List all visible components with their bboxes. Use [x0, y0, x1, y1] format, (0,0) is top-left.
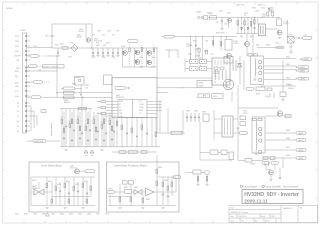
aux zeners — [241, 28, 250, 31]
svg-text:C818: C818 — [102, 57, 106, 59]
svg-text:LAMP2: LAMP2 — [300, 66, 306, 69]
svg-text:R840: R840 — [256, 94, 260, 96]
verticals x240 x244 — [240, 56, 244, 90]
rail x157 — [156, 47, 158, 78]
svg-text:LAMP7: LAMP7 — [298, 139, 304, 142]
FET Q806 — [147, 51, 152, 56]
svg-text:D802: D802 — [70, 43, 74, 45]
svg-text:R848: R848 — [286, 155, 290, 157]
wire lamp error — [27, 140, 60, 142]
net oval dot — [62, 88, 63, 89]
svg-text:1000pF: 1000pF — [288, 88, 294, 90]
svg-text:LAMP1: LAMP1 — [304, 58, 310, 61]
svg-text:2009.11.11: 2009.11.11 — [239, 216, 247, 218]
power box inner parts — [214, 67, 224, 73]
wire onoff stub — [27, 55, 57, 57]
junction dot y87.8 — [182, 87, 183, 88]
svg-text:L801: L801 — [96, 45, 100, 47]
transistor Q831 — [277, 111, 282, 116]
power stage box — [212, 58, 230, 85]
svg-text:R862: R862 — [158, 167, 162, 169]
FET labels — [121, 46, 155, 69]
wire y108.5 — [60, 108, 92, 110]
wire y87.8 right of U801 — [157, 87, 197, 89]
PC803 label — [233, 41, 239, 45]
arrow wire from oval — [126, 87, 130, 88]
small cap C801 — [41, 110, 46, 113]
svg-text:CN804: CN804 — [250, 163, 255, 165]
cn803 ground — [290, 43, 292, 46]
svg-text:R852: R852 — [48, 181, 52, 183]
svg-text:Q821: Q821 — [255, 11, 259, 13]
svg-text:C810: C810 — [219, 11, 223, 13]
svg-text:Q820: Q820 — [78, 214, 82, 216]
AC riser vertical x52 — [51, 24, 53, 48]
labels right of opto — [85, 85, 89, 90]
labels drive boxes — [190, 57, 202, 67]
svg-text:R833 R834: R833 R834 — [216, 33, 225, 35]
top link wire y24 — [52, 23, 86, 25]
svg-text:104: 104 — [102, 35, 105, 37]
net oval inside U801 — [115, 87, 126, 90]
net oval mid — [63, 87, 75, 90]
drive cluster small boxes — [198, 48, 208, 54]
svg-text:C817: C817 — [92, 57, 96, 59]
Error Detect Block box — [29, 162, 99, 212]
T803 marks — [225, 118, 231, 135]
q811 tail — [228, 23, 230, 29]
cap top labels row2 — [92, 31, 120, 37]
label C816 — [78, 29, 85, 33]
diode bridge D802 — [71, 45, 78, 52]
connector CN801 — [23, 33, 27, 133]
T801 primary winding — [255, 59, 256, 77]
svg-text:Q811: Q811 — [227, 13, 231, 15]
wire y133 — [157, 118, 185, 134]
svg-text:R854: R854 — [84, 181, 88, 183]
svg-text:Q810: Q810 — [42, 214, 46, 216]
outside grounds — [196, 184, 208, 187]
filter caps row — [92, 48, 119, 56]
svg-text:VREF: VREF — [139, 110, 144, 112]
svg-text:F801: F801 — [55, 44, 59, 46]
label D801 — [76, 35, 82, 39]
svg-text:Sheet: Sheet — [265, 219, 270, 222]
svg-text:SAMSUNG: SAMSUNG — [283, 207, 292, 210]
edb transistor top — [75, 169, 80, 174]
svg-text:470: 470 — [92, 35, 95, 37]
wire y152 blocks top — [112, 151, 157, 153]
svg-text:HV32HD_9DY - Inverter: HV32HD_9DY - Inverter — [244, 192, 299, 198]
svg-text:R853: R853 — [66, 181, 70, 183]
legend circle 1 — [240, 185, 242, 187]
mid caps y113 — [187, 113, 199, 122]
parts x240 — [240, 116, 246, 125]
cn802 wire — [208, 17, 240, 19]
edb out wire — [77, 168, 85, 171]
note box BRT — [43, 65, 65, 68]
svg-text:Size: Size — [231, 220, 234, 222]
title table — [229, 206, 318, 223]
mid caps plates — [186, 116, 200, 119]
right sub transistor — [269, 170, 274, 175]
table extra text — [261, 206, 302, 218]
U801 bottom verticals — [122, 118, 147, 147]
comb extra parts — [63, 119, 118, 133]
svg-text:DRIVE: DRIVE — [199, 85, 205, 87]
wire y92.7 right of U801 — [157, 92, 168, 94]
svg-text:R846: R846 — [286, 138, 290, 140]
vertical x86 — [85, 24, 87, 38]
svg-text:D820 SS14: D820 SS14 — [236, 5, 245, 7]
oval y47.5 — [276, 46, 284, 49]
wire ON/OFF — [39, 55, 47, 57]
svg-text:C851: C851 — [57, 184, 61, 186]
svg-text:NC : Not Connected: NC : Not Connected — [278, 185, 299, 188]
osb grounds — [118, 206, 164, 209]
wires T803 — [214, 110, 239, 140]
svg-text:Open/Short Protection Block: Open/Short Protection Block — [114, 164, 147, 168]
svg-text:CT: CT — [119, 107, 121, 109]
opto box PC802 — [104, 75, 113, 85]
svg-text:XFMR: XFMR — [199, 83, 205, 85]
lamp wire labels — [286, 57, 290, 158]
svg-text:LAMP3: LAMP3 — [300, 70, 306, 73]
wire sel dashed — [43, 81, 51, 83]
drive box dots — [191, 61, 205, 69]
vertical x92 — [86, 24, 92, 48]
bottom part list row — [15, 214, 109, 216]
svg-text:TLP621: TLP621 — [233, 43, 239, 45]
svg-text:Lamp (In)out: Lamp (In)out — [265, 185, 278, 188]
opto PC803 — [225, 39, 232, 50]
drive grid wires — [185, 58, 212, 72]
hv bus y78 — [157, 77, 212, 79]
svg-text:LAMP6: LAMP6 — [298, 132, 304, 135]
svg-text:R825: R825 — [266, 45, 270, 47]
svg-text:C819: C819 — [112, 57, 116, 59]
small ground y52 — [289, 49, 292, 53]
oval VBR left — [29, 65, 38, 68]
svg-text:R1: R1 — [61, 117, 63, 119]
transformer T802 — [252, 117, 265, 153]
small box top right of power — [224, 56, 233, 63]
rail resistor — [155, 132, 157, 137]
connector CN801 pin names — [14, 36, 20, 133]
wire err row — [27, 70, 57, 72]
wires below q822 — [247, 34, 253, 57]
bridge bottom wire — [123, 66, 158, 68]
transistor Q822 — [245, 42, 250, 47]
svg-text:ON/OFF: ON/OFF — [14, 56, 20, 58]
box on wire B — [64, 96, 75, 99]
diode D830 — [237, 64, 241, 68]
lower right box a — [245, 159, 252, 163]
cap C810 — [221, 18, 223, 25]
power box inner text — [214, 76, 216, 85]
edb grounds — [45, 207, 84, 210]
ground left — [57, 55, 60, 58]
svg-text:HV32HD_9DY Inverter: HV32HD_9DY Inverter — [231, 211, 248, 214]
wire adj — [27, 96, 57, 98]
right sub ovals CN804 — [262, 162, 279, 165]
xfmr drive label box — [197, 80, 212, 87]
FET Q804 — [135, 50, 140, 55]
wire vbr stub — [27, 65, 29, 67]
svg-text:R832: R832 — [193, 41, 197, 43]
bracket marks right — [50, 123, 53, 136]
wires left of resistors — [97, 102, 101, 114]
label oval ONOFF — [30, 55, 39, 58]
svg-text:C811: C811 — [224, 24, 228, 26]
right sub ground — [269, 179, 272, 182]
lamp oval texts — [300, 58, 310, 81]
U801 pin rows left — [106, 102, 118, 117]
wire y47.5 aux — [257, 47, 283, 49]
aux mid wire y29 — [265, 28, 277, 30]
cn802 labels — [196, 11, 231, 15]
connector lower verticals — [30, 106, 37, 131]
tap resistors — [212, 41, 222, 46]
comb extra verticals — [64, 112, 117, 147]
outside wires — [185, 173, 207, 185]
box on wire 2 — [141, 151, 147, 154]
vertical rail left x57 — [56, 56, 58, 97]
svg-text:D822: D822 — [256, 45, 260, 47]
title box — [242, 190, 303, 204]
FET Q807 — [147, 60, 152, 65]
transformer T801 — [251, 56, 264, 85]
junction dots on supply — [190, 36, 227, 37]
aux lower bus y33.7 — [236, 33, 258, 35]
inline filter L802 — [210, 16, 217, 19]
svg-text:KST2222: KST2222 — [70, 168, 77, 170]
svg-text:SCL: SCL — [15, 91, 18, 93]
diode D811 — [227, 18, 231, 22]
wire to cn803 oval — [294, 37, 303, 39]
main bus y48 — [52, 47, 127, 49]
P24V oval y36.6 — [164, 35, 175, 38]
svg-text:R837: R837 — [202, 112, 206, 114]
table texts — [231, 206, 293, 222]
extra aux parts — [267, 12, 274, 16]
bridge top wire — [127, 47, 157, 49]
FET Q803 — [123, 51, 128, 56]
caps left pair — [57, 48, 59, 56]
lower cluster boxes — [210, 150, 234, 160]
aux grounds — [240, 36, 281, 38]
osb right oval — [173, 176, 181, 179]
svg-text:D823: D823 — [289, 34, 293, 36]
lamp ovals top — [298, 58, 312, 80]
left comb labels top — [64, 100, 70, 104]
svg-text:SW: SW — [96, 43, 99, 45]
ground x283 — [281, 100, 284, 102]
svg-text:R841: R841 — [286, 57, 290, 59]
svg-text:D861: D861 — [134, 187, 138, 189]
svg-text:BRIGHT CONTROL: BRIGHT CONTROL — [44, 66, 59, 68]
osb caps — [162, 194, 169, 197]
edb wires — [31, 177, 95, 206]
supply taps down — [191, 37, 227, 58]
frame ticks bottom — [24, 221, 213, 224]
svg-text:C852: C852 — [75, 184, 79, 186]
vertical x283 — [282, 60, 284, 92]
stage2 wire y108 — [238, 107, 278, 109]
svg-text:Error Detect Block: Error Detect Block — [42, 164, 63, 167]
svg-text:D810: D810 — [51, 214, 55, 216]
connector CN803 oval — [303, 37, 313, 40]
lamp lower texts — [298, 132, 304, 160]
U801 name text — [116, 95, 125, 99]
U801 pin rows right — [147, 102, 162, 114]
svg-text:R5: R5 — [109, 118, 111, 120]
grounds under caps — [92, 55, 120, 58]
cap box x281 — [280, 92, 286, 97]
wire row A — [56, 92, 112, 94]
svg-text:C822: C822 — [261, 8, 265, 10]
wire P24V to bus — [27, 47, 52, 49]
box with X before cn803 — [287, 36, 294, 43]
transistor Q823 — [277, 30, 282, 35]
svg-text:104: 104 — [186, 46, 189, 48]
svg-text:R822: R822 — [252, 8, 256, 10]
cn803 ground marks — [289, 46, 292, 48]
revision triangle — [46, 213, 50, 216]
osb opamp U805 — [146, 188, 155, 195]
drive boxes grid — [190, 60, 207, 71]
sense caps — [270, 93, 274, 98]
c810 ground — [220, 24, 223, 30]
edb out oval — [85, 170, 95, 173]
svg-text:Rev: Rev — [231, 216, 234, 218]
legend circle 2 — [262, 185, 264, 187]
svg-text:LTV817: LTV817 — [283, 24, 289, 26]
svg-text:L810: L810 — [105, 214, 109, 216]
svg-text:LAMP9: LAMP9 — [298, 157, 304, 160]
svg-text:U805: U805 — [146, 199, 150, 201]
T801 top parts — [248, 54, 258, 56]
U801 inner pin box — [118, 100, 147, 118]
svg-text:Q8: Q8 — [214, 76, 216, 78]
drive cluster extra caps — [191, 45, 203, 60]
svg-text:C840: C840 — [265, 96, 269, 98]
svg-text:R861: R861 — [124, 187, 128, 189]
T802 ground — [255, 150, 258, 154]
svg-text:HV32HD: HV32HD — [6, 8, 13, 10]
FET gate resistors — [129, 48, 155, 53]
cn803 labels — [289, 34, 308, 36]
outside resistors — [197, 177, 208, 182]
box on wire 1 — [119, 151, 126, 154]
svg-text:R851: R851 — [32, 180, 36, 182]
svg-text:R836: R836 — [204, 51, 208, 53]
svg-text:R820: R820 — [60, 214, 64, 216]
diodes under bus — [84, 150, 94, 153]
comb verticals — [62, 96, 114, 147]
svg-text:LAMP ERR: LAMP ERR — [35, 140, 44, 143]
svg-text:Title: Title — [231, 206, 234, 209]
svg-text:C814: C814 — [45, 36, 49, 38]
wire row B — [57, 96, 112, 98]
extra labels top aux — [236, 5, 274, 19]
bridge verticals — [123, 48, 147, 67]
aux verticals — [238, 18, 258, 34]
FET gate marks — [123, 51, 150, 64]
osb label box — [125, 189, 132, 193]
osb wires — [108, 155, 176, 205]
svg-text:LAMP8: LAMP8 — [298, 149, 304, 152]
right rails under IC — [152, 100, 160, 147]
vertical x232 — [231, 91, 233, 101]
grounds under bus — [64, 150, 103, 156]
OpenShort Block box — [107, 162, 180, 212]
resistors left of U801 — [101, 100, 106, 114]
edb top labels — [70, 166, 77, 170]
sense boxes under T801 — [256, 87, 272, 91]
svg-text:R847: R847 — [286, 147, 290, 149]
labels mid aux — [256, 43, 279, 47]
arrow left of oval — [162, 36, 165, 38]
labels above fuse area — [60, 44, 72, 59]
svg-text:BAS316: BAS316 — [64, 101, 70, 104]
svg-text:R2: R2 — [69, 121, 71, 123]
edb caps — [59, 191, 88, 194]
osb input oval — [108, 191, 115, 194]
svg-text:R843: R843 — [286, 78, 290, 80]
lamp ovals lower — [296, 132, 306, 160]
net oval tail — [75, 87, 82, 89]
transistor Q812 — [227, 53, 232, 58]
bus junction dots — [70, 145, 138, 148]
power transistor Q830 — [223, 79, 234, 90]
opto label — [283, 22, 289, 26]
IC U801 big box — [112, 78, 157, 118]
svg-text:C824: C824 — [275, 43, 279, 45]
svg-text:LAMP4: LAMP4 — [300, 78, 306, 81]
supply wire y36.6 — [175, 36, 238, 38]
label box y133 — [171, 131, 182, 135]
svg-text:R844: R844 — [286, 84, 290, 86]
osb diode pair — [134, 190, 142, 195]
svg-text:C818: C818 — [97, 31, 101, 33]
series cap on riser — [51, 36, 54, 37]
opto PC801 — [277, 19, 282, 26]
osb resistors — [119, 169, 173, 203]
right sub cap — [279, 177, 281, 180]
opto box PC801 left — [75, 77, 85, 86]
comb resistors — [61, 119, 111, 131]
edb labels — [32, 180, 88, 190]
caps right of power box — [233, 60, 236, 71]
oval x246 y89 — [246, 88, 254, 91]
fuse F801 — [62, 47, 68, 49]
box on y116 — [285, 114, 291, 118]
y86 wire end label — [288, 84, 294, 90]
svg-text:Q803: Q803 — [121, 46, 125, 48]
lamp oval plus marks — [295, 58, 302, 80]
vertical x283 lower — [282, 158, 284, 168]
aux drive transformer — [258, 24, 265, 36]
aux bus dots — [241, 16, 262, 19]
tap caps — [190, 44, 198, 47]
svg-text:CN801: CN801 — [20, 30, 25, 32]
svg-text:VSEN: VSEN — [108, 189, 113, 191]
svg-text:R842: R842 — [286, 64, 290, 66]
lower cluster wires — [200, 122, 231, 162]
svg-text:CN802: CN802 — [196, 12, 201, 14]
FET Q805 — [135, 60, 140, 65]
